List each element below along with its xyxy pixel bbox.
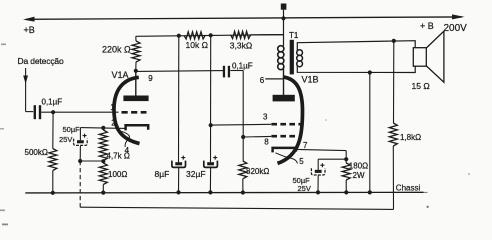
resistor 10kΩ — [184, 32, 205, 39]
label Chassi — [396, 183, 421, 192]
pin 8 label — [264, 137, 269, 146]
label 50µF first — [63, 125, 81, 134]
label V1B — [302, 75, 319, 85]
svg-text:500kΩ: 500kΩ — [25, 148, 48, 157]
scan specks — [0, 44, 470, 226]
label 25V second — [298, 184, 311, 193]
label 820kΩ — [246, 167, 269, 176]
label 8µF — [155, 169, 170, 179]
capacitor 50µF 25V (output stage) — [311, 159, 325, 192]
pin 4 label — [125, 146, 130, 155]
pin 6 stub — [265, 78, 283, 80]
svg-text:4,7k Ω: 4,7k Ω — [107, 151, 130, 160]
pin 6 label — [260, 76, 265, 85]
svg-text:9: 9 — [148, 74, 153, 83]
pin 9 label — [148, 74, 153, 83]
svg-text:7: 7 — [303, 141, 308, 150]
svg-text:100Ω: 100Ω — [108, 170, 127, 179]
arrowhead left end of B+ rail — [23, 17, 35, 22]
svg-text:1: 1 — [110, 103, 115, 112]
svg-text:2W: 2W — [353, 171, 365, 180]
svg-text:T1: T1 — [289, 31, 299, 40]
wire decoupled B+ rail — [136, 35, 283, 37]
wire to 50µF second — [318, 158, 346, 160]
label 4,7kΩ — [107, 151, 130, 160]
svg-text:1,8kΩ: 1,8kΩ — [400, 133, 421, 142]
pin 5 label — [299, 157, 304, 166]
resistor 180Ω 2W — [342, 163, 350, 192]
wire B+ rail — [26, 17, 462, 19]
capacitor 8µF — [172, 156, 186, 193]
wire feedback bottom run — [80, 207, 393, 209]
V1B pin 5 lead — [276, 153, 298, 164]
wire ground rail faded end — [424, 191, 428, 193]
label 10kΩ — [186, 40, 208, 50]
resistor 100Ω — [99, 163, 107, 193]
tube V1B envelope — [278, 77, 303, 163]
tube V1A envelope — [114, 77, 140, 143]
label 15Ω — [412, 81, 430, 91]
resistor 3,3kΩ — [205, 31, 283, 38]
wire secondary top to speaker — [297, 41, 415, 51]
capacitor 32µF — [204, 156, 218, 193]
svg-text:10k Ω: 10k Ω — [186, 40, 208, 50]
transformer T1 core — [290, 40, 294, 75]
svg-text:+B: +B — [24, 25, 35, 35]
svg-text:0,1µF: 0,1µF — [42, 97, 63, 106]
node 10k/8µF junction — [177, 34, 181, 38]
svg-text:6: 6 — [260, 76, 265, 85]
node 50µF bottom — [78, 159, 82, 163]
pin 2 label — [111, 118, 116, 127]
capacitor 0,1µF input — [34, 105, 42, 119]
svg-text:+ B: + B — [420, 21, 434, 31]
V1B plate lead — [283, 69, 285, 95]
V1B grid 1 (dashed) — [271, 123, 300, 126]
label V1A — [112, 70, 129, 80]
V1B grid 2 (dashed) — [271, 135, 297, 138]
node speaker bottom / return tap — [368, 70, 372, 74]
svg-text:0,1µF: 0,1µF — [232, 62, 253, 71]
svg-text:3,3kΩ: 3,3kΩ — [230, 40, 252, 50]
V1B cathode bar — [273, 148, 296, 153]
node cathode/50µF junction — [344, 157, 348, 161]
speaker driver box — [413, 48, 426, 66]
wire 50µF bottom to 4,7k/100 junction — [80, 160, 103, 162]
resistor 220kΩ — [132, 36, 140, 70]
svg-text:820kΩ: 820kΩ — [246, 167, 269, 176]
capacitor 50µF 25V (first stage) — [74, 128, 88, 161]
node V1A plate junction — [134, 69, 138, 73]
label +B right — [420, 21, 434, 31]
svg-text:25V: 25V — [298, 184, 311, 193]
resistor 1,8kΩ feedback — [389, 41, 397, 210]
V1A grid (dashed) — [122, 111, 147, 114]
V1A cathode bar — [126, 125, 149, 130]
V1A pin 4 lead — [122, 131, 130, 147]
node screen tap — [241, 135, 245, 139]
wire 32µF filter column / grid feed — [210, 35, 212, 162]
wire cathode to 180Ω — [345, 151, 347, 163]
svg-text:15 Ω: 15 Ω — [412, 81, 430, 91]
node 10k/3,3k/32µF junction — [209, 33, 213, 37]
transformer T1 primary lead — [283, 18, 285, 46]
svg-text:32µF: 32µF — [186, 169, 206, 179]
label Da detecção — [18, 56, 64, 66]
wire secondary bottom to speaker — [297, 66, 415, 73]
wire speaker return to ground — [369, 73, 371, 193]
pin 7 cathode lead — [296, 149, 346, 150]
wire to V1B grid pin 3 — [211, 123, 272, 126]
label 500kΩ — [25, 148, 48, 157]
V1A cathode lead (pin 2 wire) — [80, 127, 125, 130]
svg-text:220k Ω: 220k Ω — [102, 44, 131, 54]
label 180Ω — [349, 162, 368, 171]
V1A plate bar — [123, 96, 148, 102]
terminal square above B+ rail at T1 feed — [281, 4, 287, 19]
label 200V — [444, 23, 468, 34]
svg-text:V1A: V1A — [112, 70, 129, 80]
svg-text:8: 8 — [264, 137, 269, 146]
resistor 4,7kΩ — [99, 128, 107, 161]
svg-text:V1B: V1B — [302, 75, 319, 85]
svg-text:50µF: 50µF — [63, 125, 81, 134]
node input/grid junction — [51, 110, 55, 114]
V1B plate bar — [273, 95, 295, 102]
wire ground rail — [25, 191, 423, 194]
label 2W — [353, 171, 365, 180]
node speaker top / feedback tap — [392, 39, 396, 43]
label 1,8kΩ — [400, 133, 421, 142]
node ground 100Ω — [101, 191, 105, 195]
pin 1 label — [110, 103, 115, 112]
node ground 500k — [51, 191, 55, 195]
node ground 50µF second — [316, 190, 320, 194]
label 25V first — [59, 135, 72, 144]
pin 3 label — [263, 113, 268, 122]
capacitor 0,1µF coupling — [223, 66, 230, 78]
svg-text:5: 5 — [299, 157, 304, 166]
node cathode/4,7k junction — [101, 126, 105, 130]
V1A plate lead to node — [135, 71, 137, 96]
wire feedback riser (dashed) — [79, 161, 81, 207]
node ground 180Ω — [344, 190, 348, 194]
node ground 32µF — [208, 190, 212, 194]
svg-text:200V: 200V — [444, 23, 468, 34]
svg-text:Chassi: Chassi — [396, 183, 421, 192]
label 0,1µF coupling — [232, 62, 253, 71]
label 100Ω — [108, 170, 127, 179]
svg-text:25V: 25V — [59, 135, 72, 144]
resistor 820kΩ — [239, 161, 247, 193]
svg-text:Da detecção: Da detecção — [18, 56, 64, 66]
junction B+ rail / transformer feed — [281, 16, 285, 20]
node 4,7k/100 junction — [101, 159, 105, 163]
label 220kΩ — [102, 44, 131, 54]
speaker cone — [426, 31, 444, 82]
wire coupling cap to 820k column — [230, 71, 243, 162]
label 0,1µF input cap — [42, 97, 63, 106]
transformer T1 primary winding — [278, 46, 284, 70]
input wire with arrow from Da detecção — [23, 68, 33, 112]
wire 8µF filter column — [178, 36, 180, 163]
label 32µF — [186, 169, 206, 179]
wire screen pin 8 — [243, 135, 271, 138]
node ground 820k — [241, 190, 245, 194]
node ground 8µF — [176, 190, 180, 194]
svg-text:180Ω: 180Ω — [349, 162, 368, 171]
label 3,3kΩ — [230, 40, 252, 50]
label 50µF second — [293, 176, 311, 185]
svg-text:3: 3 — [263, 113, 268, 122]
wire plate node to coupling cap — [136, 70, 224, 73]
svg-text:2: 2 — [111, 118, 116, 127]
label +B left — [24, 25, 35, 35]
transformer T1 secondary winding — [297, 50, 303, 67]
label T1 — [289, 31, 299, 40]
svg-text:8µF: 8µF — [155, 169, 170, 179]
arrowhead right end of B+ rail — [452, 14, 465, 19]
resistor 500kΩ — [49, 112, 57, 193]
pin 7 label — [303, 141, 308, 150]
node grid feed junction — [209, 123, 213, 127]
wire input cap to grid pin 1 — [41, 111, 118, 113]
node ground speaker return — [368, 190, 372, 194]
